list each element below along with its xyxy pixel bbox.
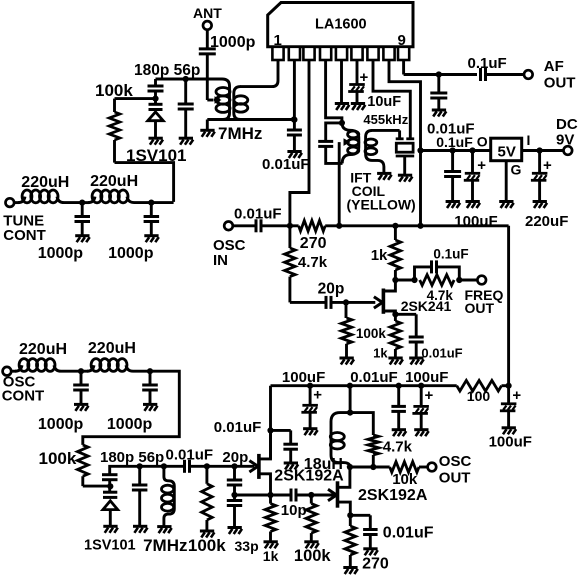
node IFT top [339,120,345,126]
inductor 220uH (tune 1) [14,174,69,203]
wire [395,314,416,337]
inductor IFT secondary [365,130,384,173]
capacitor 0.01uF (pin9) [427,93,475,138]
ground [287,152,302,159]
ground [414,430,429,437]
node [506,383,512,389]
label 1k [263,548,279,564]
svg-text:O: O [477,134,488,150]
wire [115,97,156,100]
capacitor 1000p (antenna) [199,34,256,54]
node [231,492,237,498]
node [456,277,462,283]
wire [371,129,400,132]
resistor 100 [457,380,502,404]
svg-text:100k: 100k [95,81,133,100]
ground [388,358,403,365]
svg-text:+: + [543,157,552,174]
svg-text:180p 56p: 180p 56p [100,449,164,466]
ground [432,110,447,117]
capacitor 0.1uF (freq) [415,247,469,280]
capacitor 56p [178,79,194,138]
label 100k [294,547,332,565]
wire rail [271,386,457,460]
resistor 100k (osc) [39,445,89,486]
svg-text:OSC: OSC [439,453,472,470]
svg-text:220uH: 220uH [90,173,138,190]
resonator 455kHz [396,130,415,174]
capacitor 0.01uF (drain) [283,444,298,462]
wire [233,224,256,227]
resistor 4.7k (freq) [420,275,454,304]
label G [511,162,522,178]
transistor Q1 2SK241 [374,280,452,321]
svg-text:100: 100 [467,388,491,404]
svg-text:100uF: 100uF [454,213,497,230]
ground [75,236,90,243]
ground [103,526,118,533]
resistor 270 [299,221,327,253]
capacitor 100uF (reg) [454,151,497,230]
wire [522,149,564,152]
svg-text:180p 56p: 180p 56p [134,62,200,79]
svg-text:+: + [425,387,434,404]
svg-text:1SV101: 1SV101 [84,537,136,553]
node [336,223,342,229]
ground [533,202,548,209]
transistor Q2 2SK192A [249,430,344,495]
svg-text:4.7k: 4.7k [298,254,328,271]
svg-text:100uF: 100uF [405,369,448,386]
svg-text:G: G [511,162,522,178]
label IFT COIL (YELLOW) [347,170,416,213]
capacitor 0.01uF (q3) [363,530,378,549]
wire pin7 [373,60,410,139]
resistor 100k (osc gate) [202,466,213,530]
wire pin1 [240,60,278,87]
node [417,147,423,153]
wire pin9 [404,60,477,75]
ground [264,542,279,549]
svg-text:AF: AF [544,58,564,75]
wire [207,54,213,100]
svg-text:0.1uF: 0.1uF [468,55,507,72]
svg-text:10p: 10p [281,502,307,519]
wire [325,224,395,227]
wire [350,413,373,435]
wire [486,73,525,76]
node [411,277,417,283]
svg-text:100k: 100k [294,547,332,565]
ground [143,404,158,411]
label 18uH [304,456,343,473]
svg-text:220uF: 220uF [525,213,568,230]
capacitor 100uF (rail 1) [282,369,325,428]
wire [395,279,414,282]
node [287,223,293,229]
capacitor 10uF (pin6) [348,60,401,110]
svg-text:ANT: ANT [193,5,222,21]
svg-text:10k: 10k [392,471,418,488]
capacitor 0.01uF (osc in) [256,219,261,232]
resistor 1k (drain) [371,226,401,280]
transformer 7MHz primary [216,79,230,120]
node [347,410,353,416]
ground [179,138,194,145]
wire [83,371,180,445]
node [392,223,398,229]
label 0.1uF [436,134,473,150]
svg-text:7MHz: 7MHz [143,536,187,555]
resistor 1k (source) [373,321,401,360]
terminal OSC IN [213,222,246,270]
label 180p 56p [134,62,200,79]
svg-text:270: 270 [300,235,327,252]
svg-text:220uH: 220uH [21,174,69,191]
node [392,311,398,317]
ground [149,138,164,145]
wire pin8 [389,60,421,226]
label 1000p [107,416,153,433]
node [147,368,153,374]
svg-text:0.01uF: 0.01uF [234,206,282,223]
label 0.01uF [214,419,262,436]
wire [290,301,326,304]
svg-text:CONT: CONT [3,227,46,244]
tap arrow [215,96,222,104]
wire [419,466,428,469]
node tap [214,97,220,103]
ground [363,549,378,556]
svg-text:+: + [512,387,521,404]
node [78,368,84,374]
ground [446,202,461,209]
ground [200,531,215,538]
capacitor 180p [148,86,164,91]
node [396,383,402,389]
label 33p [235,538,259,554]
node [392,277,398,283]
capacitor 220uF [525,151,568,230]
wire [134,201,151,204]
svg-text:0.01uF: 0.01uF [214,419,262,436]
capacitor 0.01uF (pin2) [262,130,310,173]
wire [459,279,477,282]
svg-text:9V: 9V [556,132,574,149]
capacitor 33p lower [227,501,242,528]
label 100k [95,81,133,100]
svg-text:(YELLOW): (YELLOW) [347,197,416,213]
svg-text:100k: 100k [188,536,226,555]
terminal AF OUT [524,58,575,92]
label 20p [222,449,248,466]
label 1SV101 [126,146,187,165]
node [347,512,353,518]
capacitor 100uF (right) [489,386,532,451]
ground [284,463,299,470]
resistor 100k (tune) [109,99,120,163]
op-amp U1 LA1600 [268,3,413,61]
svg-text:5V: 5V [498,144,516,161]
wire Vcc rail [421,149,491,152]
label 180p 56p [100,449,164,466]
svg-text:270: 270 [362,555,389,572]
ground [377,173,392,180]
wire [206,30,209,49]
resistor 1k (q2 source) [265,495,276,541]
node [137,463,143,469]
ground [392,430,407,437]
svg-text:CONT: CONT [2,388,45,405]
wire [154,79,157,86]
node [152,96,158,102]
inductor IFT primary [342,123,359,163]
capacitor 0.01uF (rail) [350,369,406,429]
node [231,463,237,469]
ground [499,202,514,209]
ground [144,236,159,243]
inductor 18uH [330,413,350,467]
svg-text:100k: 100k [356,326,387,341]
varicap 1SV101 [148,104,163,138]
wire [207,118,294,121]
varicap 1SV101 (osc) [103,492,118,526]
node [79,200,85,206]
svg-text:+: + [477,157,486,174]
wire [61,370,81,373]
wire [261,224,299,227]
ground [335,104,350,111]
wire [350,466,390,469]
ground [502,428,516,435]
wire [349,386,352,413]
node [204,463,210,469]
node [347,464,353,470]
wire [115,163,174,202]
svg-text:I: I [527,132,531,148]
label 270 [362,555,389,572]
wire [437,75,440,94]
wire [350,515,370,529]
wire [64,201,82,204]
node [107,483,113,489]
node [417,223,423,229]
svg-text:4.7k: 4.7k [383,438,413,455]
wire [133,370,150,373]
wire [83,485,111,488]
node [291,117,297,123]
resistor 4.7k (osc in) [285,226,328,303]
svg-text:0.1uF: 0.1uF [433,247,468,262]
svg-text:7MHz: 7MHz [218,124,262,143]
wire [271,430,291,444]
node [183,76,189,82]
inductor 7MHz (osc) [162,466,175,526]
capacitor 1000p (osc 1) [73,371,89,404]
wire right rail [507,226,510,386]
svg-text:1SV101: 1SV101 [126,146,187,165]
capacitor 33p upper [227,466,242,485]
ground [351,104,366,111]
svg-text:OUT: OUT [544,75,576,92]
wire [233,485,236,501]
wire [151,201,173,204]
svg-text:0.1uF: 0.1uF [436,134,473,150]
resistor 10k [390,462,419,488]
node [469,147,475,153]
node [450,147,456,153]
node [308,492,314,498]
tap arrow IFT [339,138,350,226]
wire pin5 [340,60,343,103]
wire pin2 [293,60,296,130]
svg-text:OUT: OUT [439,469,471,486]
capacitor 0.1uF (AF) [468,55,507,81]
capacitor 20p [318,281,345,309]
wire main [110,466,184,474]
wire [154,91,157,105]
svg-text:455kHz: 455kHz [363,112,408,127]
svg-text:DC: DC [556,116,578,133]
node [537,147,543,153]
wire [331,301,375,304]
capacitor 180p (osc) [102,475,118,480]
antenna terminal ANT [193,5,222,29]
svg-text:1k: 1k [371,247,388,264]
label 455kHz [363,112,408,127]
svg-text:4.7k: 4.7k [427,288,454,303]
capacitor 0.1uF (reg) [444,151,461,202]
label I [527,132,531,148]
node [291,116,297,122]
node [418,383,424,389]
node [267,427,273,433]
label 0.01uF [234,206,282,223]
capacitor IFT tuning [318,123,342,163]
terminal FREQ OUT [465,276,504,316]
wire pin4 [326,60,342,123]
capacitor 0.01uF (source) [409,337,463,360]
wire [271,494,292,497]
capacitor 10p [281,489,307,520]
svg-text:1000p: 1000p [38,416,84,433]
label 100k [188,536,226,555]
resistor 100k (q3 gate) [306,495,317,541]
label 1SV101 [84,537,136,553]
svg-text:1k: 1k [373,345,388,360]
svg-text:220uH: 220uH [88,340,136,357]
wire [395,224,508,227]
svg-text:2SK192A: 2SK192A [358,487,428,504]
label 7MHz [218,124,262,143]
svg-text:18uH: 18uH [304,456,343,473]
capacitor 1000p (osc 2) [142,371,158,404]
svg-text:1000p: 1000p [38,245,84,262]
wire regulator ground [505,161,508,201]
ground [409,358,424,365]
node [370,464,376,470]
inductor 220uH (osc 2) [81,340,136,371]
ground [74,404,89,411]
resistor 4.7k (18uH) [368,435,413,467]
svg-text:100uF: 100uF [489,434,532,451]
node [148,200,154,206]
svg-text:1000p: 1000p [108,245,154,262]
svg-text:0.01uF: 0.01uF [421,345,462,360]
wire [108,480,111,492]
label 1000p [38,416,84,433]
capacitor 100uF (rail 2) [405,369,448,429]
capacitor 1000p (tune 2) [108,203,159,262]
wire [190,465,255,468]
svg-text:0.01uF: 0.01uF [350,369,398,386]
svg-text:+: + [360,69,369,86]
svg-text:10uF: 10uF [367,94,401,110]
svg-text:20p: 20p [318,281,345,298]
wire [296,494,335,497]
svg-text:0.01uF: 0.01uF [262,156,310,173]
regulator 5V [491,138,522,161]
ground [200,130,215,137]
capacitor 1000p (tune 1) [38,203,90,262]
label 0.01uF [383,524,434,541]
node [436,71,442,77]
svg-text:IN: IN [213,252,228,269]
inductor 220uH (tune 2) [82,173,138,203]
svg-text:100uF: 100uF [282,369,325,386]
svg-text:1000p: 1000p [210,34,256,51]
terminal TUNE CONT [3,198,46,244]
ground [303,429,318,436]
terminal OSC OUT [428,453,472,486]
wire pin3 [290,60,309,226]
inductor 220uH (osc 1) [11,341,67,371]
node [343,299,349,305]
svg-text:1k: 1k [263,548,279,564]
transistor Q3 2SK192A [328,467,428,515]
node [161,463,167,469]
ground [343,568,358,575]
terminal DC 9V [556,116,578,155]
label O [477,134,488,150]
svg-text:LA1600: LA1600 [315,17,367,33]
capacitor 0.01uF (osc coupling) [185,460,190,473]
ground [466,202,481,209]
ground [228,528,243,535]
ground [340,358,355,365]
svg-text:OUT: OUT [465,300,495,316]
resistor 270 (q3) [345,515,356,567]
svg-text:100k: 100k [39,449,77,468]
resistor 100k (gate) [341,302,386,357]
ground [398,175,413,182]
wire [156,78,223,81]
node [347,383,353,389]
wire [206,120,209,130]
wire [502,384,509,387]
wire [235,494,271,497]
transformer 7MHz secondary [234,87,248,120]
terminal OSC CONT [2,367,45,405]
svg-text:33p: 33p [235,538,259,554]
ground [133,526,148,533]
svg-text:1000p: 1000p [107,416,153,433]
node [267,492,273,498]
label 0.01uF [166,447,214,464]
label 7MHz [143,536,187,555]
ground [157,527,172,534]
ground [304,542,319,549]
